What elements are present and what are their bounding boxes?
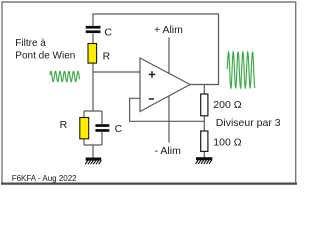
svg-text:100 Ω: 100 Ω bbox=[213, 137, 241, 149]
svg-text:Filtre à: Filtre à bbox=[15, 38, 46, 49]
svg-text:+ Alim: + Alim bbox=[154, 24, 183, 36]
svg-text:R: R bbox=[103, 50, 111, 62]
svg-text:200 Ω: 200 Ω bbox=[213, 99, 241, 111]
svg-text:- Alim: - Alim bbox=[155, 145, 182, 157]
svg-text:Diviseur par 3: Diviseur par 3 bbox=[216, 117, 281, 129]
svg-text:R: R bbox=[60, 119, 68, 131]
svg-text:Pont de Wien: Pont de Wien bbox=[15, 51, 75, 62]
svg-text:F6KFA - Aug 2022: F6KFA - Aug 2022 bbox=[12, 174, 77, 183]
svg-text:C: C bbox=[104, 27, 112, 39]
svg-text:C: C bbox=[115, 123, 123, 135]
